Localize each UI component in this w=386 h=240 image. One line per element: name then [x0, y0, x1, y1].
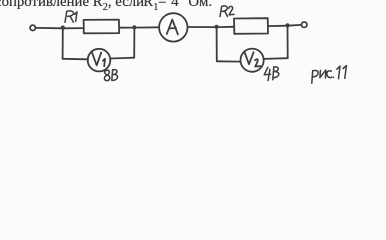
left terminal [30, 25, 35, 30]
wire ammeter to node C [188, 26, 217, 28]
wire R2 to node D [268, 25, 288, 27]
V1 letter V [92, 52, 101, 65]
wire terminal to node A [36, 27, 63, 29]
node C (junction dot) [215, 25, 219, 29]
wire V1 branch bottom left [63, 58, 88, 61]
ammeter U1 [159, 13, 187, 41]
caption рис.11 [312, 66, 347, 84]
wire node A down (V1 branch left) [62, 28, 64, 58]
right terminal [302, 22, 307, 27]
V2 subscript 2 [255, 59, 261, 66]
wire R1 to node B [119, 27, 134, 29]
label 4В (value of V2) [264, 67, 279, 81]
wire V2 branch bottom right [264, 57, 288, 60]
wire node C to R2 [217, 26, 235, 28]
wire node D to right terminal [288, 24, 302, 27]
label 8В (value of V1) [104, 70, 117, 81]
label R2 [220, 6, 234, 17]
label R1 [65, 11, 77, 22]
wire node B to ammeter [134, 26, 158, 28]
resistor R2 [234, 18, 268, 34]
wire node C down (V2 branch left) [216, 27, 218, 61]
wire node A to R1 [63, 27, 84, 29]
voltmeter V1 [88, 49, 111, 72]
voltmeter V2 [241, 49, 264, 72]
wire V1 branch right up to node B [133, 28, 135, 58]
ammeter letter A [167, 20, 178, 35]
wire V2 branch bottom left [217, 60, 241, 62]
V2 letter V [244, 52, 253, 65]
V1 subscript 1 [103, 59, 105, 66]
printed problem text (top-cropped line) [0, 0, 212, 13]
node D (junction dot) [285, 23, 289, 27]
node A (junction dot) [61, 26, 65, 30]
node B (junction dot) [132, 25, 136, 29]
resistor R1 [84, 20, 120, 34]
wire V1 branch bottom right [110, 57, 134, 60]
wire V2 branch right up to node D [287, 26, 289, 59]
